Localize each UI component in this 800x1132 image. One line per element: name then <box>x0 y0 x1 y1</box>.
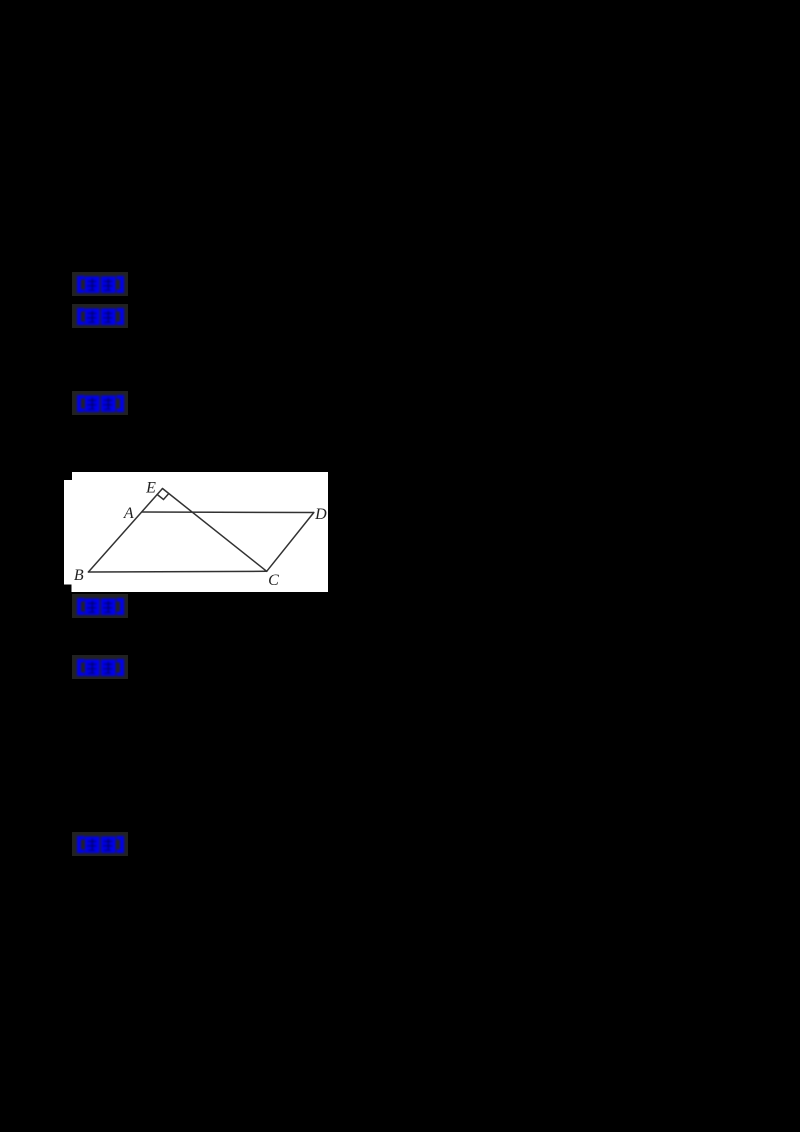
svg-text:E: E <box>145 480 156 497</box>
blue tag label 4 (解答) <box>72 594 128 618</box>
svg-text:D: D <box>314 506 327 523</box>
black step notch bottom-left <box>64 585 72 593</box>
svg-text:A: A <box>123 505 134 522</box>
white background of pasted figure <box>64 472 328 592</box>
svg-text:B: B <box>74 567 84 584</box>
blue tag label 1 (考点) <box>72 272 128 296</box>
blue tag label 3 (分析) <box>72 391 128 415</box>
black step notch top-left <box>64 472 72 480</box>
blue tag label 6 (点评) <box>72 832 128 856</box>
blue tag label 5 <box>72 655 128 679</box>
right-angle mark at E <box>157 494 169 500</box>
side AD <box>142 511 314 514</box>
blue tag label 2 (专题) <box>72 304 128 328</box>
line B-A-E <box>88 489 162 573</box>
side BC <box>88 570 266 573</box>
line EC <box>163 489 267 572</box>
svg-text:C: C <box>268 572 279 589</box>
figure panel: parallelogram ABCD with exterior point E <box>64 472 328 592</box>
side DC <box>267 513 314 572</box>
